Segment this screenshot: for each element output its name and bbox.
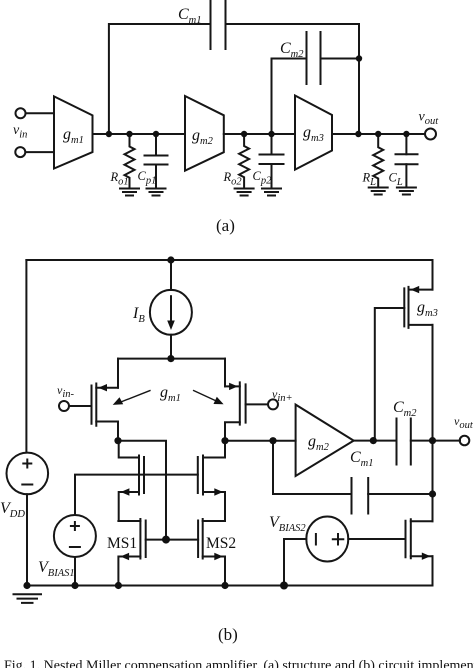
svg-text:vin+: vin+: [272, 387, 293, 404]
svg-text:MS2: MS2: [206, 535, 236, 552]
svg-text:Ro1: Ro1: [110, 170, 129, 188]
svg-text:Cm1: Cm1: [350, 449, 374, 469]
svg-text:gm2: gm2: [192, 127, 214, 147]
svg-text:gm1: gm1: [160, 384, 181, 404]
svg-text:(b): (b): [218, 625, 238, 644]
svg-text:Ro2: Ro2: [223, 170, 243, 188]
svg-text:VDD: VDD: [0, 500, 25, 520]
svg-text:vout: vout: [419, 110, 440, 128]
svg-text:vin-: vin-: [57, 383, 74, 400]
svg-text:Cp2: Cp2: [253, 169, 273, 187]
svg-text:Cp1: Cp1: [138, 169, 157, 187]
svg-text:gm2: gm2: [308, 433, 330, 453]
svg-text:vout: vout: [454, 414, 474, 431]
svg-text:gm3: gm3: [303, 124, 324, 144]
svg-text:RL: RL: [362, 171, 377, 189]
svg-text:gm3: gm3: [417, 299, 438, 319]
svg-text:(a): (a): [216, 216, 235, 235]
svg-text:MS1: MS1: [107, 535, 137, 552]
svg-text:CL: CL: [389, 171, 403, 189]
svg-text:IB: IB: [132, 305, 145, 325]
svg-text:Cm2: Cm2: [393, 399, 417, 419]
svg-text:Cm2: Cm2: [280, 40, 304, 60]
svg-text:gm1: gm1: [63, 126, 84, 146]
svg-text:vin: vin: [13, 123, 27, 141]
svg-text:VBIAS1: VBIAS1: [38, 559, 75, 579]
svg-text:VBIAS2: VBIAS2: [269, 514, 306, 534]
svg-text:Fig. 1. Nested Miller compensa: Fig. 1. Nested Miller compensation ampli…: [4, 659, 474, 668]
